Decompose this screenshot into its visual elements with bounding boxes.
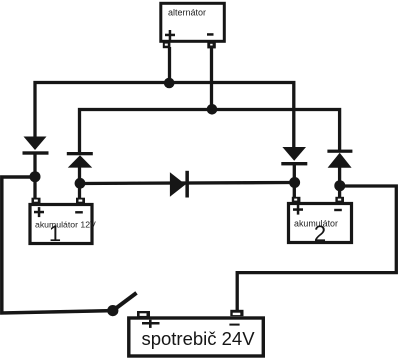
diode D4 (right outer, pointing up) xyxy=(327,150,352,168)
battery B1 box xyxy=(30,205,92,244)
svg-text:1: 1 xyxy=(49,221,61,246)
battery B1 + terminal xyxy=(32,198,41,204)
svg-text:2: 2 xyxy=(314,221,326,246)
battery B1 - terminal xyxy=(76,198,85,204)
load box spotrebic 24V xyxy=(129,318,263,356)
switch pivot dot xyxy=(107,305,118,316)
diode D1 (left outer, pointing down) xyxy=(23,137,49,155)
wire alternator - terminal to bus2 xyxy=(210,47,213,110)
wire alternator + terminal to bus1 xyxy=(168,47,171,83)
wire node B to load: right loop xyxy=(237,186,396,311)
wire D1 cathode to battery1 + terminal xyxy=(33,153,36,199)
battery B2 box xyxy=(289,204,352,243)
svg-text:alternátor: alternátor xyxy=(168,8,206,18)
battery B2 + mark xyxy=(293,205,303,215)
wire D3 cathode to battery2 + terminal xyxy=(293,164,296,198)
wire middle link battery1- to battery2+ xyxy=(80,183,295,184)
battery B2 + terminal xyxy=(292,197,301,203)
node B junction dot (battery2 -) xyxy=(334,180,345,191)
wire D2 anode to battery1 - terminal xyxy=(78,166,81,199)
load + terminal xyxy=(137,311,150,318)
battery B1 - mark xyxy=(75,211,83,213)
svg-text:akumulátor 12V: akumulátor 12V xyxy=(35,219,96,229)
wire D4 anode to battery2 - terminal xyxy=(338,167,341,198)
alternator box U1 xyxy=(161,3,225,41)
wire node A to switch: left loop xyxy=(2,177,113,313)
alternator right terminal xyxy=(207,42,216,49)
alternator left terminal xyxy=(163,42,171,48)
junction dot battery2 + / middle link xyxy=(289,177,300,188)
diode D3 (right inner, pointing down) xyxy=(281,147,307,165)
battery B2 - terminal xyxy=(335,197,344,203)
switch lever (open) xyxy=(113,293,137,311)
diode D5 (middle, pointing right) xyxy=(170,171,189,198)
diode D2 (left inner, pointing up) xyxy=(67,152,93,168)
node A junction dot (battery1 +) xyxy=(30,171,41,182)
battery B1 + mark xyxy=(34,207,44,217)
svg-text:spotrebič 24V: spotrebič 24V xyxy=(141,328,255,349)
junction dot at alternator - / bus2 xyxy=(207,104,218,115)
battery B2 - mark xyxy=(334,209,342,211)
load + mark xyxy=(142,320,160,328)
junction dot at alternator + / bus1 xyxy=(164,78,175,89)
alternator + mark xyxy=(165,30,175,40)
load - mark xyxy=(229,324,239,326)
wire bus2 (-) with drops to D2 and D4 xyxy=(80,110,340,154)
wire bus1 (+) with drops to D1 and D3 xyxy=(35,83,294,149)
junction dot battery1 - / middle link xyxy=(75,178,86,189)
alternator - mark xyxy=(207,33,214,36)
load - terminal xyxy=(230,310,243,316)
